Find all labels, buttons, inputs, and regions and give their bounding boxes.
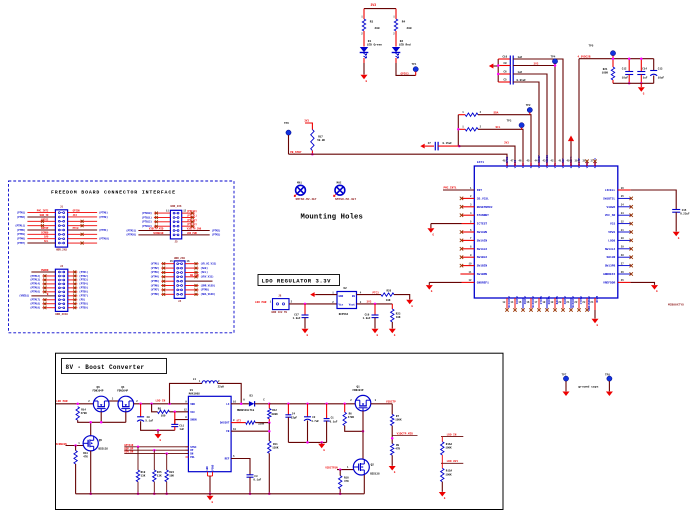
svg-text:28: 28	[621, 254, 624, 257]
svg-text:29: 29	[621, 246, 624, 249]
ground below TP7	[563, 392, 570, 397]
svg-text:RESETBMCU: RESETBMCU	[477, 206, 493, 209]
svg-text:U2: U2	[344, 287, 348, 290]
svg-text:(PTD7): (PTD7)	[79, 295, 88, 298]
svg-text:REF: REF	[225, 458, 230, 461]
svg-text:R18: R18	[141, 471, 146, 474]
resistor R8 100 series VCC	[152, 404, 158, 412]
svg-text:VCC: VCC	[190, 411, 195, 414]
svg-text:45: 45	[527, 160, 530, 163]
resistor R4	[394, 19, 397, 31]
svg-text:STANDBY: STANDBY	[477, 214, 489, 217]
wire Q5 source to bottom rail	[90, 451, 92, 494]
wire FB tap	[231, 430, 269, 432]
connector J5	[170, 210, 181, 239]
svg-text:3V3: 3V3	[534, 63, 539, 66]
test point TP4	[552, 59, 557, 64]
svg-text:LDO PWR: LDO PWR	[255, 301, 267, 304]
wire U1 ground pins	[207, 472, 209, 476]
svg-text:SW13L2: SW13L2	[605, 248, 616, 251]
resistor R330K feedback	[246, 421, 256, 424]
resistor R7 100K	[391, 414, 394, 425]
svg-text:10uF: 10uF	[622, 77, 629, 80]
svg-text:(PTM16): (PTM16)	[30, 291, 41, 294]
wire R8 to U1 VCC	[170, 411, 189, 413]
MCU U3 body	[474, 166, 618, 298]
svg-text:TP3: TP3	[507, 120, 512, 123]
svg-text:SW1BPB2: SW1BPB2	[506, 156, 509, 168]
resistor R12 600K	[268, 404, 270, 409]
svg-text:R11: R11	[273, 443, 278, 446]
svg-text:BSTOP: BSTOP	[41, 227, 49, 230]
svg-text:SMTSO-M2-4ET: SMTSO-M2-4ET	[335, 198, 356, 201]
svg-text:(PTD3): (PTD3)	[79, 279, 88, 282]
svg-text:0.1uF: 0.1uF	[253, 479, 261, 482]
svg-text:(PTD6): (PTD6)	[79, 291, 88, 294]
svg-text:GPIO2: GPIO2	[41, 218, 49, 221]
svg-text:C9: C9	[147, 416, 151, 419]
svg-text:1.0uF: 1.0uF	[363, 317, 371, 320]
svg-text:13K: 13K	[157, 475, 162, 478]
svg-text:POL: POL	[190, 456, 195, 459]
svg-text:C13: C13	[658, 67, 663, 70]
svg-text:0.01uF: 0.01uF	[517, 79, 527, 82]
svg-text:3V3: 3V3	[367, 301, 372, 304]
svg-text:HDR_2X6: HDR_2X6	[171, 205, 182, 208]
svg-text:R9: R9	[396, 444, 400, 447]
svg-text:C16: C16	[365, 313, 370, 316]
svg-text:FDN304P: FDN304P	[117, 390, 128, 393]
svg-text:4.5VDC2B: 4.5VDC2B	[578, 56, 591, 59]
power arrow into cap bank	[489, 63, 494, 68]
svg-text:SW13PB: SW13PB	[605, 265, 616, 268]
capacitor C11 1uF	[171, 423, 178, 425]
svg-text:SW1BLX: SW1BLX	[477, 256, 488, 259]
svg-text:LDO PWR: LDO PWR	[56, 400, 68, 403]
svg-text:VREFDDR: VREFDDR	[603, 281, 615, 284]
svg-text:36: 36	[621, 187, 624, 190]
svg-text:27: 27	[621, 262, 624, 265]
svg-text:SW13N: SW13N	[607, 256, 616, 259]
svg-text:J4: J4	[178, 300, 182, 303]
wire 4.5VDC top rail	[579, 58, 654, 60]
resistor R14 470K	[76, 407, 79, 421]
ground below U1	[209, 494, 211, 496]
wire to ground	[157, 430, 159, 434]
wire 4.5VDC down to MCU pin	[578, 59, 580, 163]
ground below C17	[302, 329, 309, 334]
svg-text:C6: C6	[504, 71, 508, 74]
svg-text:(SDA_VLDO): (SDA_VLDO)	[201, 293, 216, 296]
svg-text:TP4: TP4	[551, 56, 556, 59]
svg-text:R20: R20	[387, 290, 392, 293]
svg-text:HDR_2X10: HDR_2X10	[55, 313, 68, 316]
svg-text:35: 35	[621, 195, 624, 198]
svg-text:47K: 47K	[344, 480, 349, 483]
svg-text:20: 20	[558, 301, 561, 304]
svg-text:SW1ALX: SW1ALX	[477, 248, 488, 251]
resistor R15A 100K	[441, 463, 443, 468]
node junction boost output	[268, 403, 271, 406]
svg-text:R25: R25	[157, 471, 162, 474]
node junction cap bank	[497, 64, 500, 67]
svg-text:C17: C17	[294, 313, 299, 316]
svg-text:Vin: Vin	[339, 303, 344, 307]
svg-text:22uH: 22uH	[218, 385, 225, 388]
svg-text:10uF: 10uF	[658, 77, 665, 80]
wire C15 to ground	[675, 212, 677, 231]
svg-text:9T2: 9T2	[237, 420, 242, 423]
svg-text:SW1BIN: SW1BIN	[477, 265, 488, 268]
svg-text:J1: J1	[60, 206, 64, 209]
svg-text:VCOREDIG: VCOREDIG	[546, 155, 549, 169]
capacitor C10 1uF	[498, 58, 510, 60]
wire Q4 drain to LDO IN rail	[134, 403, 189, 405]
node junction C1 top	[325, 403, 328, 406]
resistor R10 47K	[339, 470, 341, 476]
wire 3V3 top rail of LED circuit	[364, 8, 396, 10]
svg-text:10: 10	[469, 262, 472, 265]
svg-text:100K: 100K	[445, 473, 452, 476]
wire C5 to MCU pin 44	[513, 82, 539, 163]
svg-text:(PTM14): (PTM14)	[30, 283, 41, 286]
svg-text:(VTM2): (VTM2)	[150, 267, 159, 270]
wire SDA to MCU	[478, 115, 531, 163]
svg-text:C5: C5	[504, 79, 508, 82]
wire L1 right leg to LX	[218, 383, 242, 403]
svg-text:1uF: 1uF	[643, 77, 648, 80]
svg-text:(PTB12): (PTB12)	[142, 221, 153, 224]
ground of RC network	[640, 83, 642, 87]
svg-text:(PTM1): (PTM1)	[17, 211, 26, 214]
svg-text:(PTM4): (PTM4)	[99, 229, 108, 232]
svg-text:(PTC11): (PTC11)	[187, 214, 198, 217]
wire U2 EN to R20	[357, 294, 382, 296]
svg-text:LDO IN: LDO IN	[156, 400, 166, 403]
svg-text:12: 12	[469, 279, 472, 282]
svg-text:(PTM5): (PTM5)	[17, 229, 26, 232]
svg-text:(PTM13): (PTM13)	[30, 279, 41, 282]
svg-text:22pF: 22pF	[291, 416, 298, 419]
svg-text:J5: J5	[174, 241, 178, 244]
svg-text:R17: R17	[318, 135, 323, 138]
wire between Q6 and Q4	[109, 400, 118, 402]
wire DACOUT to 330K	[231, 422, 246, 424]
svg-text:LED Green: LED Green	[367, 43, 383, 47]
svg-text:R6: R6	[349, 413, 353, 416]
svg-text:(PTB11): (PTB11)	[142, 216, 153, 219]
svg-text:SMTSO-M2-4ET: SMTSO-M2-4ET	[296, 198, 317, 201]
svg-text:0.15uF: 0.15uF	[443, 142, 453, 145]
svg-text:42: 42	[551, 160, 554, 163]
svg-text:23: 23	[582, 301, 585, 304]
capacitor C15 0.22uF at LICELL	[672, 209, 680, 211]
svg-text:EXT1: EXT1	[477, 161, 484, 164]
svg-text:(PTD8): (PTD8)	[79, 303, 88, 306]
svg-text:10K: 10K	[386, 299, 391, 302]
capacitor C16 1.0uF	[374, 304, 376, 315]
wire C8 to TP4 and MCU pin 42	[513, 65, 555, 67]
svg-text:GND: GND	[206, 466, 209, 471]
svg-text:3V3: 3V3	[304, 120, 309, 123]
wire PB_STBY to MCU pin 45	[289, 154, 508, 162]
svg-text:MBR0520LT1G: MBR0520LT1G	[237, 409, 255, 412]
svg-text:R14: R14	[81, 409, 86, 412]
svg-text:SW1AIN: SW1AIN	[477, 239, 488, 242]
svg-text:34: 34	[621, 204, 624, 207]
capacitor C2 4.7uF polarized	[307, 404, 309, 417]
wire J8 to U2 Vin	[289, 303, 337, 305]
wire V3DCTP down to R7	[391, 404, 393, 415]
svg-text:200: 200	[375, 27, 380, 30]
wire Q6 gate	[100, 412, 102, 423]
dashed interface box	[9, 181, 235, 333]
svg-text:SCL: SCL	[44, 240, 49, 243]
svg-text:GNDREF1: GNDREF1	[477, 281, 489, 284]
svg-text:VCOREREF: VCOREREF	[538, 155, 541, 169]
svg-text:TP1: TP1	[412, 63, 417, 66]
capacitor C3 0.1uF	[247, 474, 254, 476]
svg-text:VDD: VDD	[190, 403, 195, 406]
svg-text:V3DCTP_3N8: V3DCTP_3N8	[187, 228, 202, 231]
svg-text:11: 11	[469, 271, 472, 274]
svg-text:LDO 8V1: LDO 8V1	[447, 460, 459, 463]
svg-text:GB_PWR: GB_PWR	[190, 274, 199, 277]
svg-text:ground caps: ground caps	[578, 384, 598, 388]
capacitor C8 0.1uF	[498, 65, 510, 67]
svg-text:(VTM1): (VTM1)	[150, 263, 159, 266]
node junction R14 top	[76, 403, 79, 406]
svg-text:HDR_2X8: HDR_2X8	[56, 249, 67, 252]
capacitor C9 5.1uF polarized	[140, 404, 142, 417]
svg-text:LX: LX	[226, 403, 230, 406]
node junction C9 top	[139, 403, 142, 406]
svg-text:(PTM19): (PTM19)	[30, 307, 41, 310]
capacitor C5 0.01uF	[498, 81, 510, 83]
svg-text:46: 46	[519, 160, 522, 163]
ground below R9	[389, 466, 396, 471]
svg-text:(PTM8): (PTM8)	[99, 211, 108, 214]
svg-text:(PTM5): (PTM5)	[201, 289, 210, 292]
svg-text:(PTB10): (PTB10)	[142, 212, 153, 215]
svg-text:Mounting Holes: Mounting Holes	[301, 214, 364, 222]
svg-text:(PD): (PD)	[79, 299, 85, 302]
wire output cap ground rail	[288, 441, 326, 443]
svg-text:SW1AVB: SW1AVB	[477, 231, 488, 234]
svg-text:SW1BT2L: SW1BT2L	[603, 197, 615, 200]
svg-text:V3DCTP_MID: V3DCTP_MID	[149, 228, 164, 231]
svg-text:470K: 470K	[348, 416, 355, 419]
svg-text:(PTD1): (PTD1)	[79, 271, 88, 274]
svg-text:C2: C2	[312, 416, 316, 419]
wire REF to C3	[231, 459, 250, 475]
svg-text:1uF: 1uF	[518, 56, 523, 59]
svg-text:PGND: PGND	[211, 464, 214, 470]
svg-text:(VTM7): (VTM7)	[150, 289, 159, 292]
svg-text:NCP562: NCP562	[339, 313, 349, 316]
svg-text:11: 11	[166, 210, 169, 213]
svg-text:(PTD2): (PTD2)	[79, 275, 88, 278]
svg-text:ICTEST: ICTEST	[477, 223, 488, 226]
node junction R6 top	[343, 403, 346, 406]
svg-text:LDO IN: LDO IN	[447, 433, 457, 436]
svg-text:31: 31	[621, 229, 624, 232]
svg-text:C14: C14	[642, 67, 647, 70]
svg-text:VPW1: VPW1	[608, 231, 615, 234]
svg-text:(PTM21): (PTM21)	[126, 229, 137, 232]
svg-text:0.1uF: 0.1uF	[330, 420, 338, 423]
svg-text:PTC8: PTC8	[73, 227, 79, 230]
svg-text:200: 200	[407, 27, 412, 30]
svg-text:V3WWX: V3WWX	[607, 206, 616, 209]
svg-text:(PTM17): (PTM17)	[30, 299, 41, 302]
resistor R9 47K	[391, 444, 394, 456]
wire Q1 drain output	[371, 403, 392, 405]
svg-text:1uF: 1uF	[179, 428, 184, 431]
node junction R8 top	[150, 403, 153, 406]
svg-text:(PTM18): (PTM18)	[30, 303, 41, 306]
wire LX to D3 anode	[231, 403, 249, 405]
wire R7 to mid node	[391, 426, 393, 444]
svg-text:470K: 470K	[81, 412, 88, 415]
wire right branch to R4	[395, 9, 397, 19]
svg-text:R12: R12	[272, 409, 277, 412]
svg-text:(VTM4): (VTM4)	[150, 276, 159, 279]
svg-text:GNDREF2: GNDREF2	[603, 273, 615, 276]
capacitor C1 0.1uF	[326, 404, 328, 419]
svg-text:0.22uF: 0.22uF	[680, 213, 690, 216]
svg-text:Q5: Q5	[99, 439, 103, 442]
svg-text:J2: J2	[60, 265, 64, 268]
svg-text:LICELL: LICELL	[605, 189, 616, 192]
svg-text:PMC_INT1: PMC_INT1	[444, 186, 457, 189]
svg-text:TP2: TP2	[526, 104, 531, 107]
svg-text:(PTM7): (PTM7)	[17, 242, 26, 245]
svg-text:19: 19	[550, 301, 553, 304]
node junction FB divider	[268, 421, 271, 424]
svg-text:(VTM3): (VTM3)	[150, 271, 159, 274]
svg-text:Q4: Q4	[121, 386, 125, 389]
svg-text:(VREG1): (VREG1)	[19, 295, 30, 298]
svg-text:(PTC12): (PTC12)	[187, 219, 198, 222]
node junction C16	[374, 303, 377, 306]
svg-text:(V5_HC_V33): (V5_HC_V33)	[201, 263, 218, 266]
svg-text:FREEDOM BOARD CONNECTOR INTERF: FREEDOM BOARD CONNECTOR INTERFACE	[51, 189, 176, 195]
svg-text:R4: R4	[402, 21, 406, 24]
svg-text:(PTM11): (PTM11)	[15, 224, 26, 227]
svg-text:10: 10	[233, 428, 236, 431]
svg-text:U1: U1	[190, 389, 194, 392]
node junction C11 top	[174, 411, 177, 414]
svg-text:Q1: Q1	[357, 386, 361, 389]
svg-text:LED Red: LED Red	[399, 43, 411, 47]
svg-text:(PTD5): (PTD5)	[79, 287, 88, 290]
svg-text:12: 12	[184, 408, 187, 411]
svg-text:SW1BPB: SW1BPB	[477, 273, 488, 276]
wire Q2 source to rail	[363, 475, 365, 494]
connector J4	[174, 261, 185, 298]
capacitor C6 1uF	[498, 73, 510, 75]
svg-text:SA0: SA0	[44, 236, 49, 239]
svg-text:GPIO5: GPIO5	[73, 210, 81, 213]
test point TP1	[413, 67, 418, 72]
svg-text:10K: 10K	[169, 475, 174, 478]
svg-text:LDO_PWR: LDO_PWR	[187, 232, 198, 235]
svg-text:DACOUT: DACOUT	[220, 422, 230, 425]
svg-text:SCRB03N: SCRB03N	[153, 232, 164, 235]
svg-text:32: 32	[621, 220, 624, 223]
svg-text:R15A: R15A	[446, 470, 453, 473]
svg-text:SWD_IO: SWD_IO	[40, 214, 49, 217]
resistor R24 10K	[165, 452, 168, 455]
svg-text:15: 15	[170, 260, 173, 263]
wire D2 to GPIO net	[395, 58, 397, 63]
svg-text:V33: V33	[610, 223, 615, 226]
svg-text:(SMR_VLDO): (SMR_VLDO)	[201, 284, 216, 287]
wire bottom rail of RC network	[613, 82, 654, 84]
svg-text:R16A: R16A	[446, 443, 453, 446]
resistor R23 10K	[391, 304, 393, 309]
wire I2C pullup bus	[457, 115, 459, 146]
svg-text:FDN304P: FDN304P	[353, 389, 364, 392]
svg-text:GPIO3: GPIO3	[401, 72, 409, 75]
node junction R13 top	[74, 444, 77, 447]
ground right of R20	[406, 300, 413, 305]
svg-text:TP6: TP6	[284, 122, 289, 125]
svg-text:FB: FB	[226, 430, 230, 433]
svg-text:15: 15	[518, 301, 521, 304]
resistor R13 47K	[75, 446, 77, 451]
title box 8V - Boost Converter	[62, 359, 167, 374]
power arrow at C7	[420, 144, 424, 149]
ground of output caps	[321, 442, 323, 443]
wire left branch to R3	[363, 9, 365, 19]
wire R14 bottom to gate rail	[78, 420, 126, 422]
svg-text:47K: 47K	[83, 456, 88, 459]
wire R15A to ground	[441, 482, 443, 492]
svg-text:16: 16	[187, 260, 190, 263]
node junction C2 top	[306, 403, 309, 406]
resistor R16A 100K	[441, 437, 443, 442]
svg-text:16: 16	[233, 400, 236, 403]
svg-text:(PTM20): (PTM20)	[126, 234, 137, 237]
svg-text:MH1: MH1	[297, 182, 302, 185]
svg-text:HDR 1X2 TH: HDR 1X2 TH	[272, 311, 288, 314]
node junction L1 drop	[168, 403, 171, 406]
svg-text:(SCL): (SCL)	[201, 271, 209, 274]
wire R20 to ground	[394, 295, 410, 300]
wire D3 cathode to output node	[255, 403, 270, 405]
power arrow VDD at pin 39	[568, 136, 574, 142]
svg-text:MH2: MH2	[337, 182, 342, 185]
svg-text:(PTM2): (PTM2)	[212, 229, 221, 232]
ground below C15	[673, 232, 680, 237]
svg-text:PMC_INT2: PMC_INT2	[37, 210, 49, 213]
svg-text:BSS138: BSS138	[370, 473, 380, 476]
capacitor C17 1.0uF	[304, 304, 306, 315]
svg-text:C12: C12	[622, 67, 627, 70]
wire U2 GND to power arrow	[316, 294, 337, 296]
wire U1 lower pins stubs	[185, 446, 188, 448]
resistor R17 50.0K pulldown	[305, 123, 312, 130]
wire output rail	[269, 403, 355, 405]
node junction cap bank 2	[497, 73, 500, 76]
svg-text:100K: 100K	[445, 447, 452, 450]
wire Q4 gate	[125, 412, 127, 423]
wire R6 bottom to Q1 gate node	[345, 426, 363, 432]
wire R13 to bottom rail	[75, 464, 77, 494]
svg-text:8V - Boost Converter: 8V - Boost Converter	[66, 364, 145, 371]
